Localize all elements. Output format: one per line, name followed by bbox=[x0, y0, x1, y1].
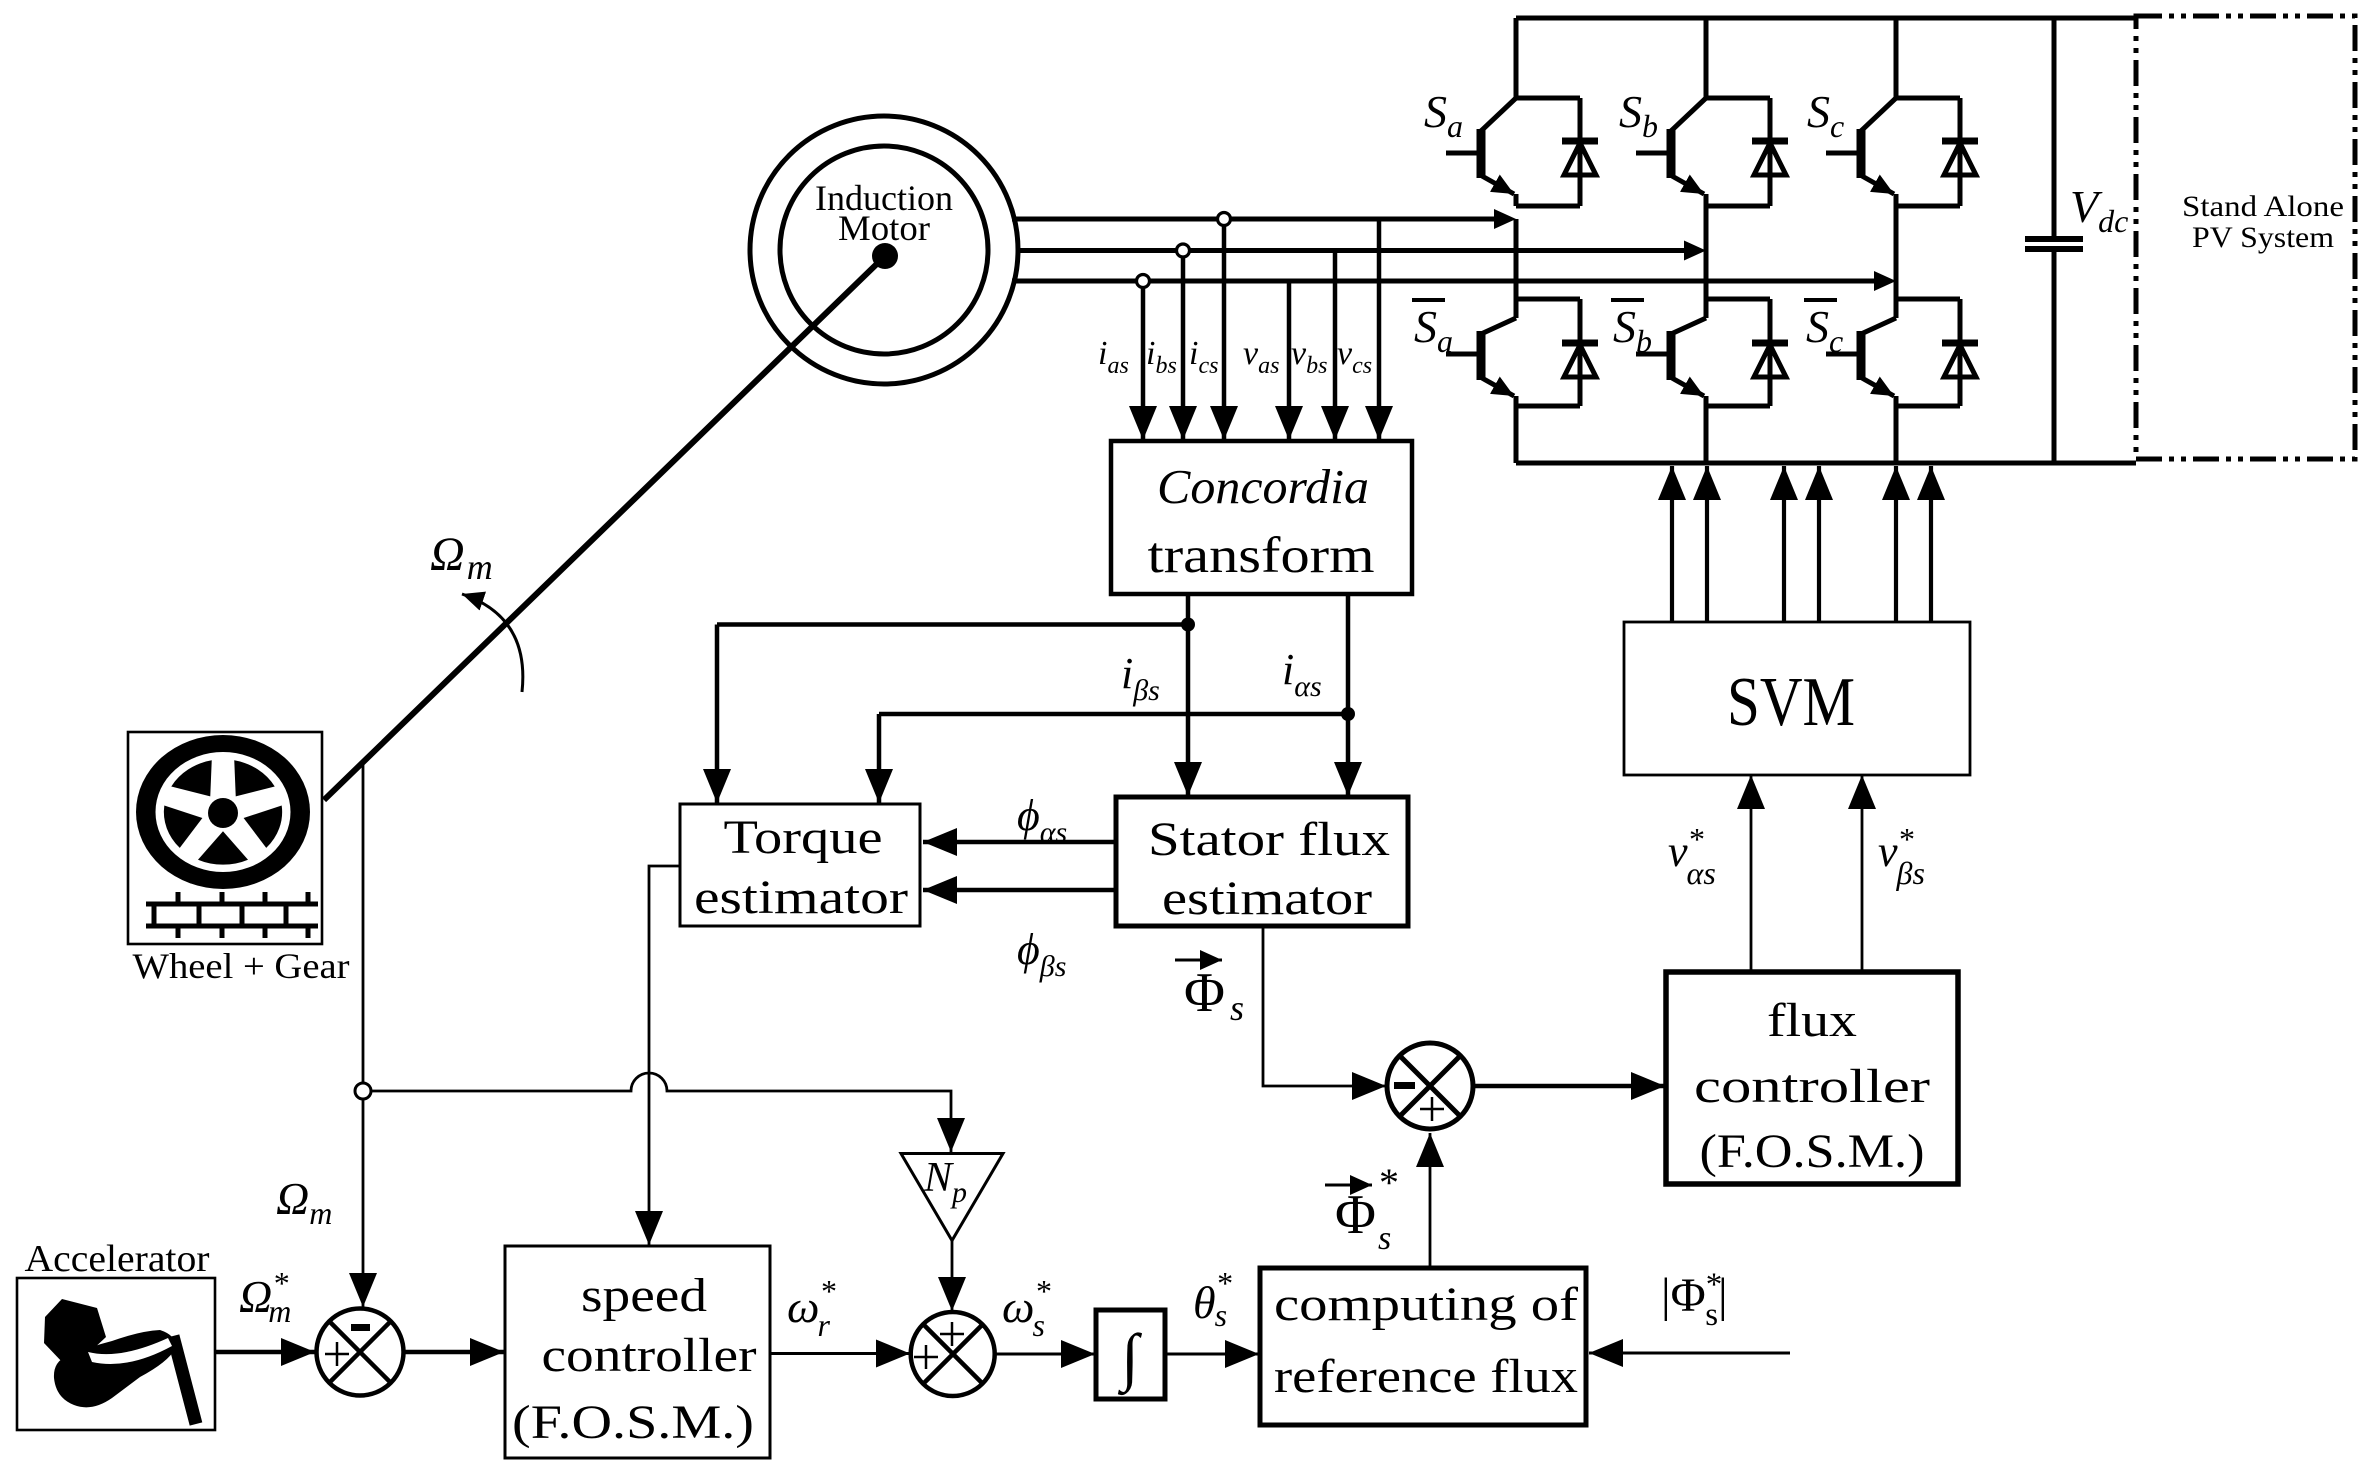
svg-text:PV System: PV System bbox=[2192, 221, 2334, 254]
svg-text:(F.O.S.M.): (F.O.S.M.) bbox=[1700, 1125, 1925, 1178]
svg-text:Motor: Motor bbox=[838, 208, 930, 248]
svg-text:Stand Alone: Stand Alone bbox=[2182, 190, 2344, 223]
svg-text:estimator: estimator bbox=[1162, 872, 1372, 925]
svg-text:Stator flux: Stator flux bbox=[1148, 813, 1390, 866]
svg-text:*: * bbox=[1379, 1160, 1399, 1205]
svg-text:controller: controller bbox=[542, 1329, 757, 1382]
svg-text:speed: speed bbox=[581, 1269, 707, 1322]
svg-text:Ω*m: Ω*m bbox=[239, 1265, 291, 1329]
svg-text:Φ: Φ bbox=[1335, 1184, 1376, 1246]
svg-text:reference flux: reference flux bbox=[1274, 1350, 1578, 1403]
svg-text:Wheel + Gear: Wheel + Gear bbox=[133, 946, 350, 986]
svg-text:Φ: Φ bbox=[1184, 962, 1225, 1024]
svg-text:estimator: estimator bbox=[694, 871, 908, 924]
svg-text:(F.O.S.M.): (F.O.S.M.) bbox=[512, 1396, 754, 1449]
svg-text:flux: flux bbox=[1767, 994, 1857, 1047]
svg-text:Concordia: Concordia bbox=[1157, 459, 1369, 514]
svg-text:controller: controller bbox=[1694, 1060, 1930, 1113]
svg-text:transform: transform bbox=[1148, 528, 1375, 584]
svg-text:s: s bbox=[1230, 988, 1244, 1028]
svg-text:Accelerator: Accelerator bbox=[25, 1238, 210, 1280]
svg-text:∫: ∫ bbox=[1117, 1321, 1142, 1396]
svg-text:Torque: Torque bbox=[724, 811, 883, 864]
svg-text:SVM: SVM bbox=[1727, 664, 1855, 741]
svg-text:computing of: computing of bbox=[1274, 1278, 1578, 1331]
svg-text:s: s bbox=[1378, 1220, 1391, 1257]
